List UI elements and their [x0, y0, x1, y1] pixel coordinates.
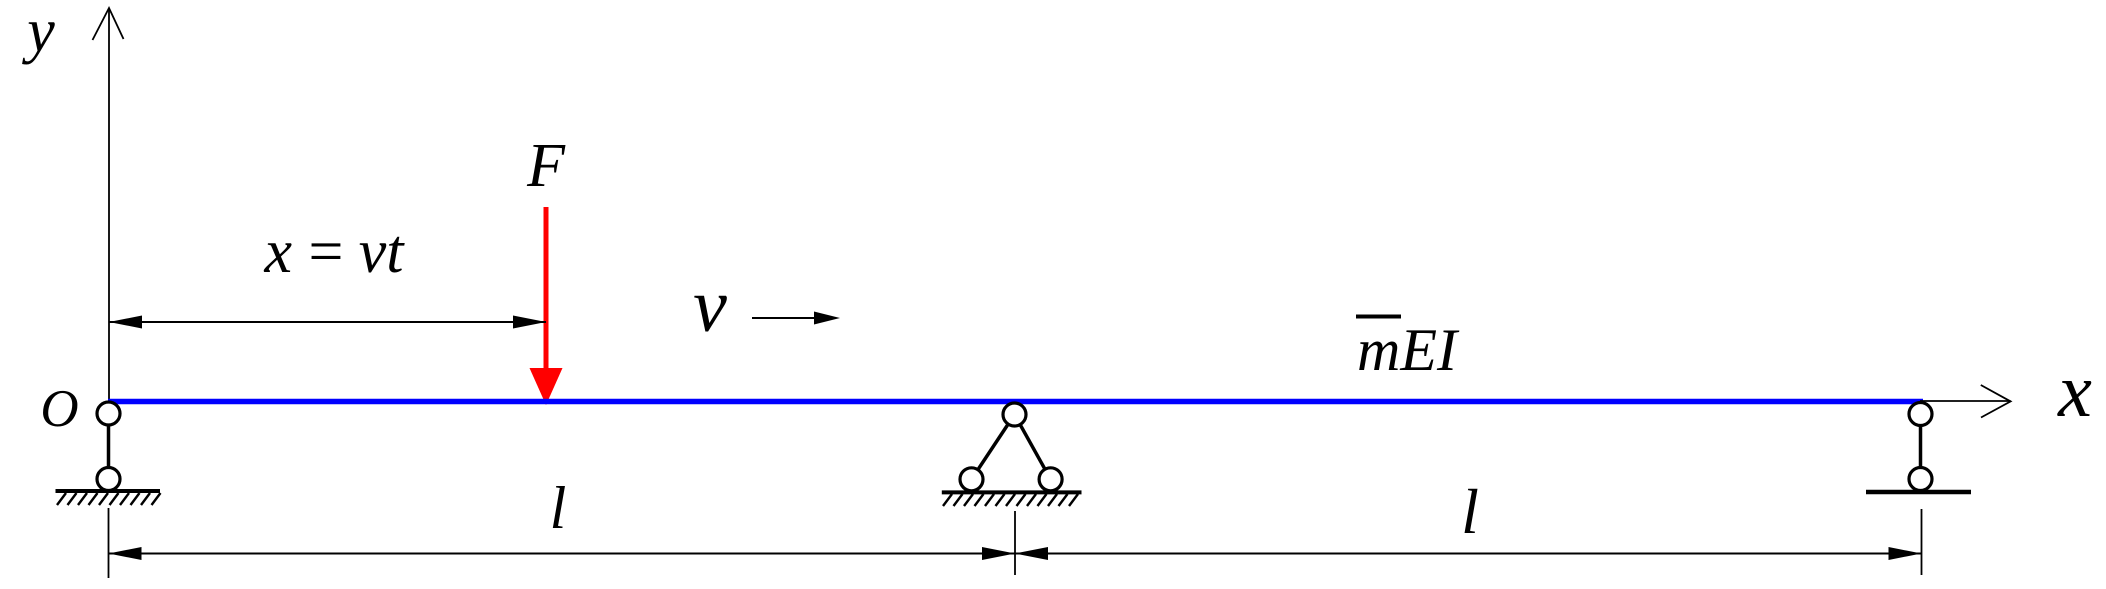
svg-text:v: v	[693, 264, 727, 348]
middle support (pinned, triangle on rollers)	[960, 403, 1062, 491]
svg-text:O: O	[40, 380, 78, 438]
svg-text:x = vt: x = vt	[264, 218, 406, 286]
extension line left	[108, 508, 110, 578]
dim arrows at middle (bowtie)	[982, 547, 1015, 560]
dimension x=vt line	[109, 316, 546, 329]
overline of m	[1356, 315, 1401, 319]
right support ground (no hatch)	[1866, 490, 1971, 495]
left support ground	[56, 491, 161, 505]
x-axis line	[1920, 400, 2011, 402]
extension line right	[1921, 509, 1923, 575]
force F red arrow	[530, 207, 563, 405]
svg-text:F: F	[526, 132, 566, 200]
dim arrow right end	[1889, 547, 1922, 560]
y-axis arrowhead	[93, 8, 124, 40]
x-axis arrowhead	[1981, 385, 2011, 418]
dim arrow left end	[109, 547, 142, 560]
middle support ground	[942, 492, 1082, 506]
svg-text:x: x	[2057, 349, 2092, 433]
svg-text:l: l	[550, 475, 567, 541]
svg-text:l: l	[1461, 476, 1479, 547]
bottom dimension line	[109, 553, 1922, 555]
svg-text:mEI: mEI	[1357, 317, 1460, 383]
extension line middle	[1014, 511, 1016, 575]
right support (roller, double circle)	[1909, 403, 1932, 491]
left support (roller, double circle)	[97, 402, 120, 491]
y-axis line	[108, 8, 110, 399]
beam (blue)	[108, 399, 1923, 405]
svg-text:y: y	[21, 0, 55, 65]
velocity arrow	[752, 312, 840, 325]
